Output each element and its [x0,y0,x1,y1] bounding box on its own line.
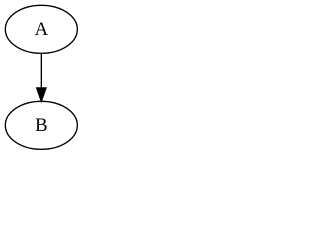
wire edge A to B [40,54,42,88]
node A [5,5,77,53]
arrowhead of edge A to B [37,88,46,101]
svg-text:B: B [35,115,47,136]
node B [5,101,77,149]
svg-text:A: A [35,19,49,40]
